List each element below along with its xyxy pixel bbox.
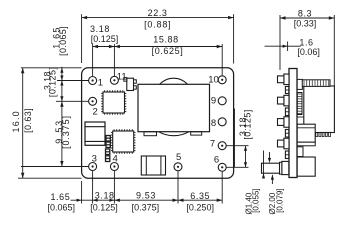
dimension 3.18 [0.125] pin1 to pin2 (rotated) [61,81,63,102]
side view hidden pin stub [285,151,288,159]
side view top component [297,79,302,89]
pin 2 pad [89,97,97,105]
side view middle component [297,124,315,142]
dimension 9.53 [0.375] pin4 to pin5 [114,199,178,201]
capacitor C1 (left, with terminal bands) [85,122,105,145]
leader from pin 7 right [226,145,248,147]
transformer T1 (top view, rect with core arcs) [160,78,188,84]
transformer mounting foot left [144,132,157,136]
dimension 1.65 [0.065] top edge to pin1 (rotated) [61,67,63,81]
svg-text:[0.88]: [0.88] [144,20,171,30]
svg-text:[0.33]: [0.33] [294,19,317,29]
side view component lower boundary [297,116,304,118]
side view transformer body [304,86,335,133]
leader from pin 2 left [56,100,89,102]
pin 3 pad [89,163,97,171]
side view middle component lid line [297,127,315,129]
pin 7 pad [218,142,226,150]
side view middle component flange [297,142,315,146]
svg-text:2: 2 [93,106,98,117]
side view pin row 8 [284,117,289,128]
svg-text:7: 7 [210,138,215,149]
extension line pin4 down [113,171,115,204]
svg-text:[0.055]: [0.055] [251,188,260,212]
dimension 1.65 [0.065] left edge to pin3 [71,199,93,201]
svg-text:[0.125]: [0.125] [47,67,57,97]
svg-text:3: 3 [92,154,97,165]
IC U1 (QFP near pin 2) [103,92,125,113]
svg-text:22.3: 22.3 [148,8,168,18]
pin 9 pad [218,97,226,105]
svg-text:[0.250]: [0.250] [186,203,214,213]
pin 6 pad [218,163,226,171]
svg-text:4: 4 [113,154,118,165]
pin 4 pad [110,163,118,171]
extension line pin5 down [177,171,179,203]
dimension 1.6 [0.06] pin standoff [265,45,288,47]
dimension 9.53 [0.375] pin2 to pin3 (rotated) [61,101,63,166]
extension line for rotated text [234,109,236,168]
pin 11 pad [110,76,118,84]
extension line pin6 down [221,172,223,204]
side view hidden pin stub [285,130,288,138]
svg-text:15.88: 15.88 [153,35,179,45]
svg-text:9.53: 9.53 [136,191,156,201]
svg-text:6.35: 6.35 [190,191,210,201]
leader from pin 1 left [57,80,89,82]
svg-text:[0.125]: [0.125] [90,203,118,213]
side view pin row 10 [284,74,289,85]
side view transformer pins (teeth) [316,133,318,137]
PCB board edge (side view) [289,69,297,178]
svg-text:3.18: 3.18 [90,24,110,34]
side view coil (hatched bar) [302,80,330,87]
svg-text:[0.079]: [0.079] [276,188,285,212]
arrow at pin tip top [269,152,271,161]
svg-text:3.18: 3.18 [95,190,115,200]
svg-text:9: 9 [211,96,216,107]
svg-text:[0.06]: [0.06] [297,47,320,57]
side view pin row 9 [284,95,289,106]
dimension 6.35 [0.250] pin5 to pin6 [178,199,222,201]
leader from pin 3 left [21,166,89,168]
inductor L1 (bottom middle, with end bands) [141,156,165,175]
side view hidden pin stub [285,87,288,94]
side view hatched vertical component [297,93,302,115]
transformer mounting foot right [191,132,202,135]
dimension 22.3 [0.88] overall width [81,14,83,63]
extension line module top edge left [21,67,82,69]
IC U2 (QFP near pin 4) [113,131,134,152]
extension line module bottom edge left [18,177,82,179]
svg-text:8: 8 [211,118,216,129]
extension line pin3 down [92,171,94,204]
svg-text:[0.065]: [0.065] [48,203,76,213]
transistor Q1 (SOT-23 near pin 11) [127,78,134,90]
svg-text:[0.375]: [0.375] [132,203,160,213]
side view pin row 6 (long pin, dimensioned) [282,161,289,174]
svg-text:[0.125]: [0.125] [243,109,253,139]
dimension 15.88 [0.625] pin11-pin10 span [221,44,223,76]
svg-text:6: 6 [214,154,219,165]
pin 5 pad [174,163,182,171]
side view bottom component [297,157,315,176]
dimension 3.18 [0.125] pin1-pin11 spacing [92,44,94,76]
leader diameter 2.00 (at pin base) [271,175,273,184]
small capacitor C2 pads [106,136,110,142]
svg-text:5: 5 [176,152,181,163]
module body outline (top view) [82,68,234,178]
dimension 16.0 [0.63] overall height (rotated) [22,68,24,178]
svg-text:[0.125]: [0.125] [91,34,119,44]
pin 10 pad [218,76,226,84]
svg-text:1.65: 1.65 [50,192,70,202]
pin 1 pad [89,77,97,85]
svg-text:[0.63]: [0.63] [23,108,33,133]
dimension 8.3 [0.33] side view overall depth [279,15,281,70]
leader diameter 1.40 (through pin tip) [263,151,265,179]
extension line module left edge down [81,181,83,204]
svg-text:8.3: 8.3 [298,8,312,18]
side view hidden pin stub [285,108,288,116]
svg-text:1: 1 [98,77,103,88]
side view small component [297,147,303,157]
side view pin row 7 [284,138,289,149]
pin 8 pad [218,118,226,126]
svg-text:[0.625]: [0.625] [152,46,184,56]
small capacitor C3 pads [106,149,110,155]
dimension 3.18 [0.125] pin7 to pin6 (rotated) [245,146,247,168]
svg-text:[0.065]: [0.065] [58,26,68,56]
leader from pin 6 right [226,166,248,168]
svg-text:[0.375]: [0.375] [61,115,71,149]
svg-text:16.0: 16.0 [11,110,21,132]
dimension 3.18 [0.125] pin3 to pin4 [93,199,115,201]
